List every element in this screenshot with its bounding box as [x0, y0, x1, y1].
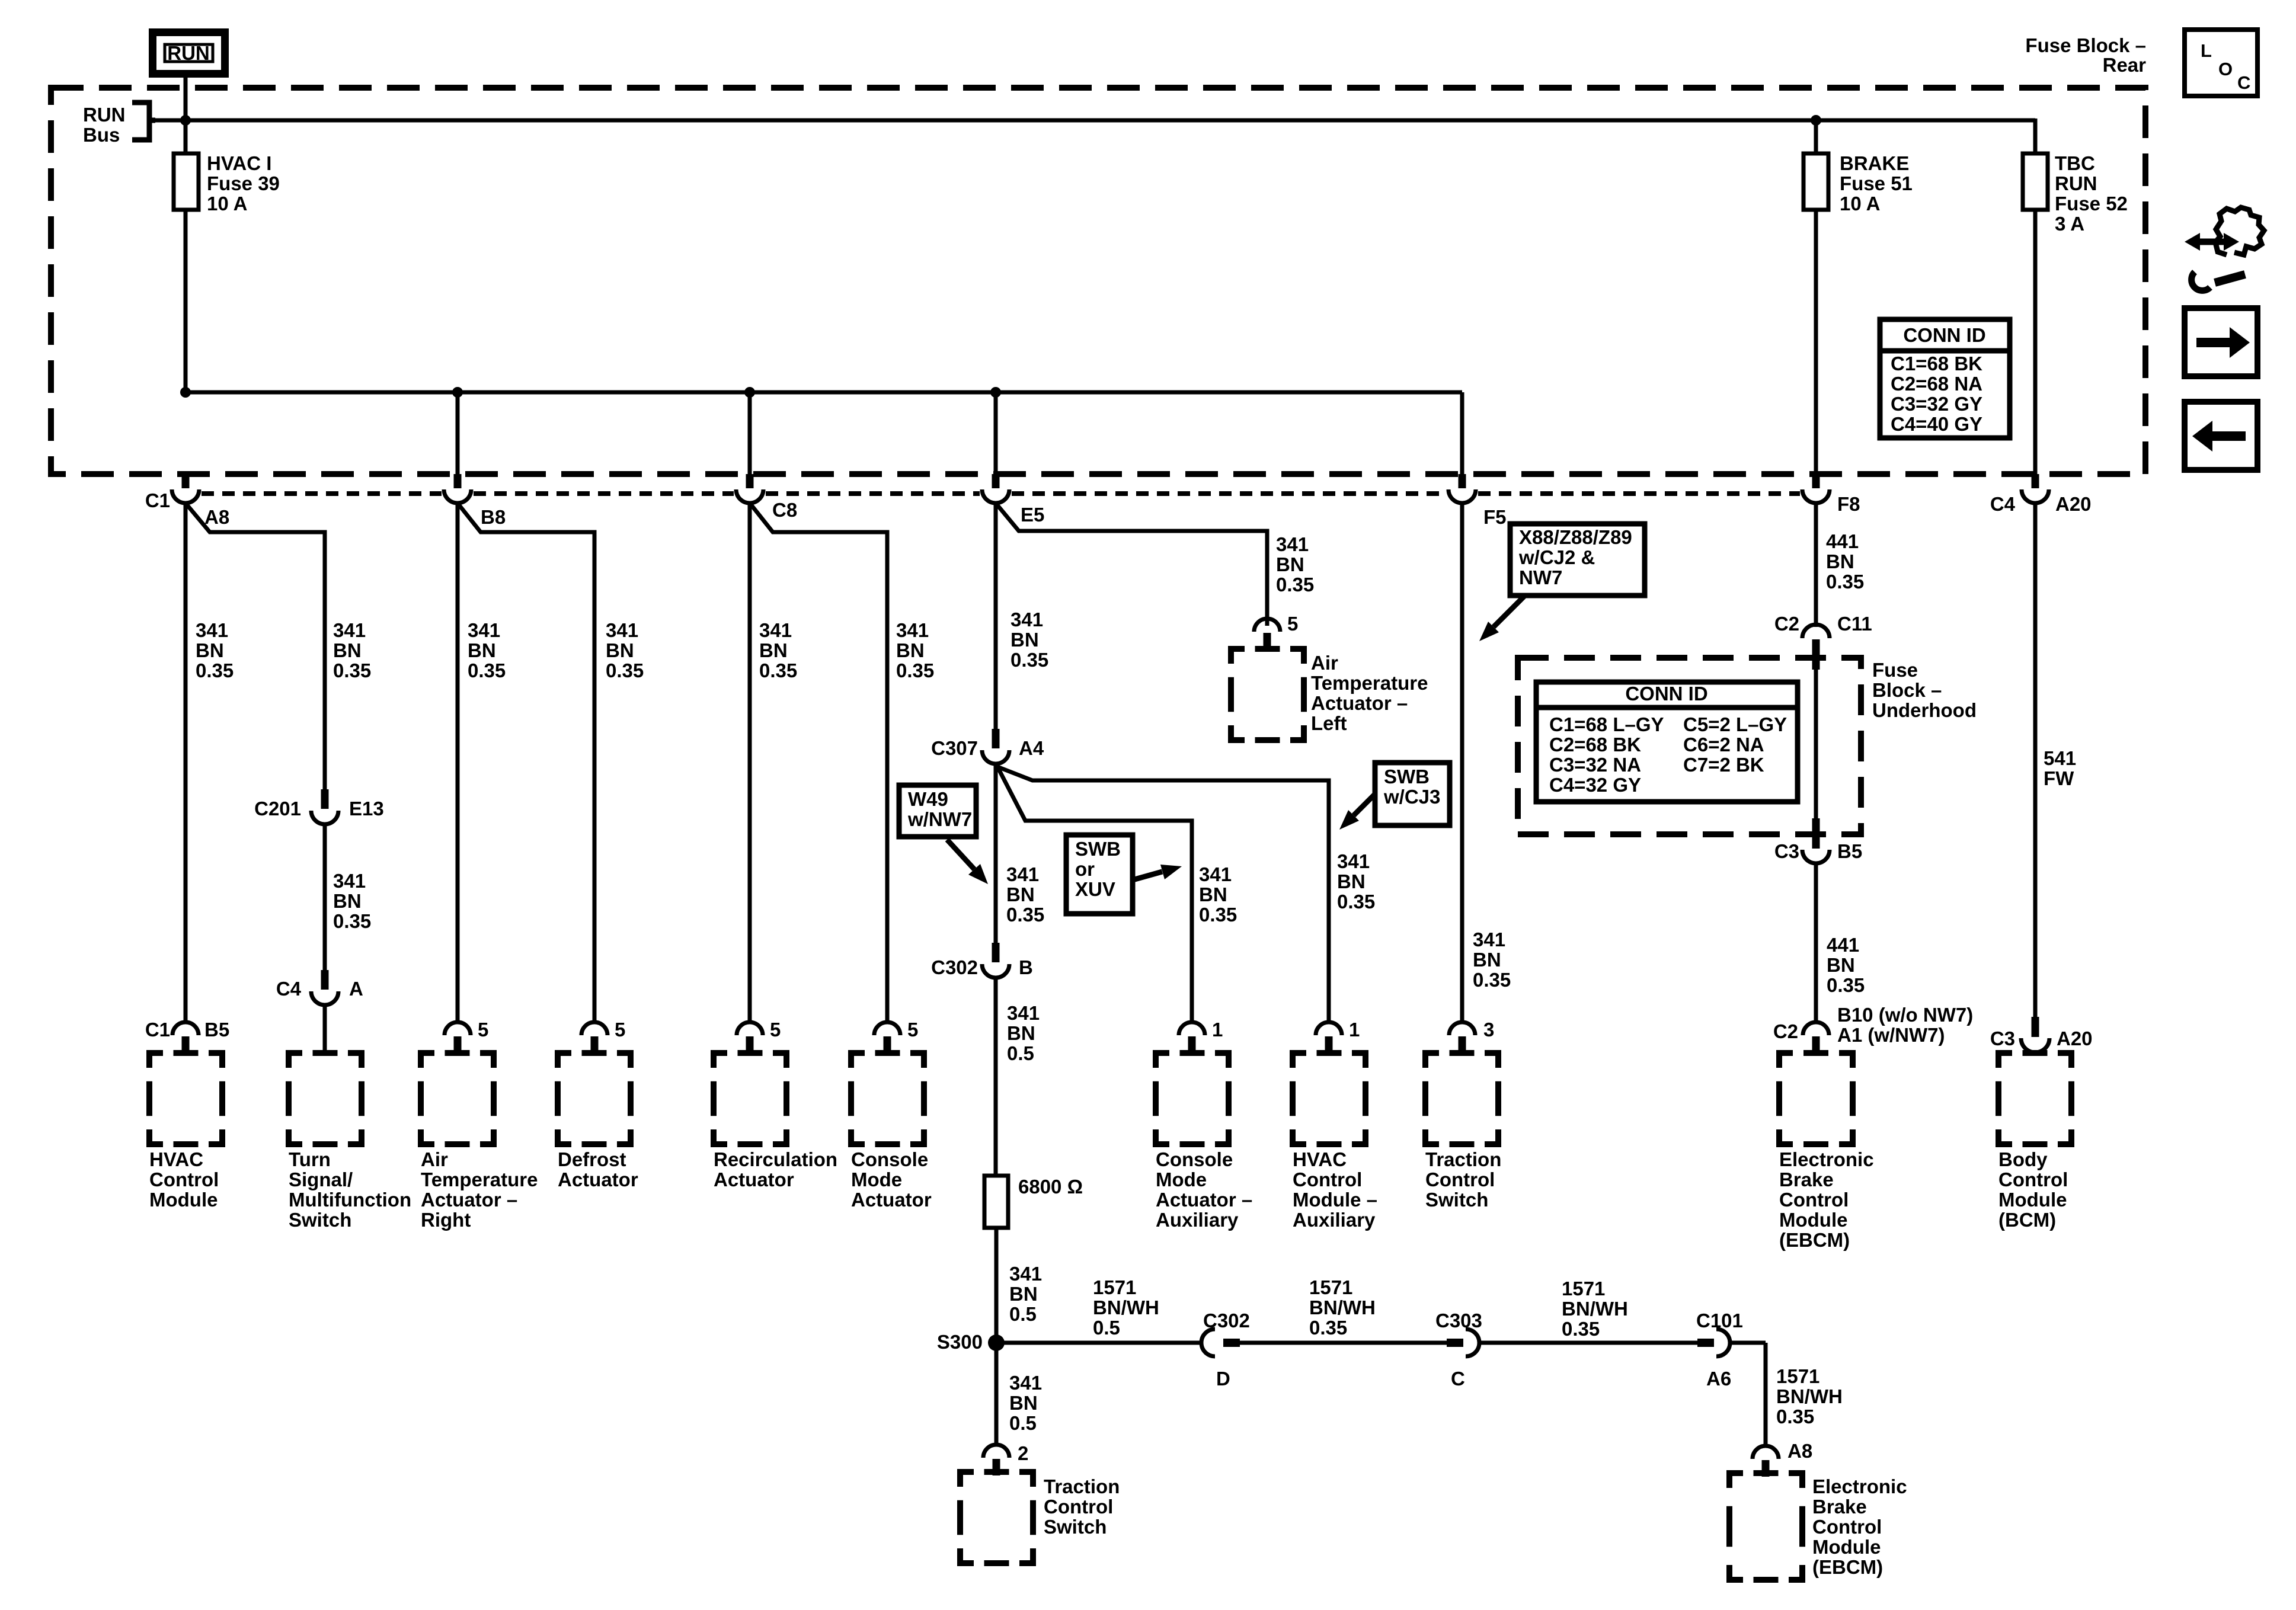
junction inner bus col E5 [990, 387, 1001, 398]
wire inner bus drop E5 [994, 392, 998, 474]
svg-text:Block –: Block – [1872, 679, 1942, 701]
label 341 BN 0.35 col A [196, 619, 234, 681]
icon back arrow box [2185, 402, 2257, 470]
label 341 BN 0.5 above S300 [1009, 1263, 1042, 1325]
label HVAC I Fuse 39 10 A [207, 152, 280, 215]
wire C302 to resistor [994, 978, 998, 1176]
component Recirculation Actuator box [714, 1053, 786, 1144]
component Electronic Brake Control Module box (lower) [1729, 1473, 1802, 1580]
svg-text:Fuse: Fuse [1872, 659, 1918, 681]
svg-text:RUN: RUN [83, 104, 126, 126]
node RUN Bus bracket [132, 103, 155, 140]
svg-text:Recirculation: Recirculation [714, 1148, 837, 1170]
svg-text:Fuse 39: Fuse 39 [207, 172, 280, 194]
wire C307 branch to Console Mode Actuator - Auxiliary [997, 767, 1192, 1022]
svg-text:Fuse Block –: Fuse Block – [2025, 34, 2146, 56]
connector pin 5 Air Temp Actuator Left [1254, 613, 1298, 649]
svg-text:B5: B5 [204, 1019, 229, 1041]
svg-text:341: 341 [896, 619, 929, 641]
svg-text:C302: C302 [931, 956, 978, 978]
svg-text:BN: BN [333, 890, 362, 912]
svg-text:C2: C2 [1773, 1020, 1798, 1042]
label 541 FW [2044, 747, 2076, 789]
connector E5 [982, 474, 1044, 526]
arrow X88 note to F5 wire [1479, 596, 1524, 641]
wire inner distribution bus [186, 392, 1462, 474]
connector C2 at EBCM [1773, 1020, 1829, 1053]
svg-text:RUN: RUN [167, 42, 210, 64]
svg-text:Mode: Mode [851, 1169, 902, 1190]
svg-text:0.35: 0.35 [1199, 904, 1237, 926]
svg-text:C101: C101 [1696, 1310, 1743, 1331]
svg-text:Air: Air [421, 1148, 448, 1170]
label 341 BN 0.35 below C201 [333, 870, 371, 932]
svg-text:1571: 1571 [1776, 1365, 1819, 1387]
svg-text:Electronic: Electronic [1779, 1148, 1874, 1170]
component Electronic Brake Control Module box [1779, 1053, 1853, 1144]
svg-text:BN: BN [1009, 1283, 1038, 1305]
svg-text:XUV: XUV [1075, 878, 1115, 900]
svg-text:C2: C2 [1774, 613, 1799, 635]
svg-text:BN: BN [1276, 553, 1304, 575]
label RUN Bus [83, 104, 126, 146]
svg-text:C11: C11 [1837, 613, 1872, 635]
arrow SWB/CJ3 note to col J wire [1339, 794, 1375, 830]
svg-text:6800 Ω: 6800 Ω [1018, 1176, 1083, 1198]
note box SWB w/CJ3 [1375, 763, 1450, 825]
label HVAC Control Module [149, 1148, 219, 1211]
svg-text:C307: C307 [931, 737, 978, 759]
svg-text:341: 341 [1276, 533, 1309, 555]
svg-text:1571: 1571 [1562, 1278, 1605, 1299]
svg-text:C6=2 NA: C6=2 NA [1683, 734, 1764, 756]
connector C1 pin A8 [145, 474, 229, 528]
svg-text:C3: C3 [1774, 840, 1799, 862]
wire 441 BN 0.35 F8 to C2 [1814, 503, 1818, 627]
connector pin 5 Air Temp Actuator Right [445, 1019, 488, 1053]
svg-text:Module: Module [149, 1189, 218, 1211]
label Turn Signal Multifunction Switch [289, 1148, 411, 1231]
icon LOC reference box [2185, 30, 2257, 96]
wire RUN bus [151, 119, 2035, 123]
note box X88/Z88/Z89 w/CJ2 & NW7 [1510, 524, 1645, 596]
svg-text:Control: Control [149, 1169, 219, 1190]
svg-text:B: B [1019, 956, 1033, 978]
component Traction Control Switch box [1425, 1053, 1498, 1144]
svg-text:10 A: 10 A [207, 193, 247, 215]
svg-text:CONN ID: CONN ID [1625, 683, 1707, 705]
svg-text:C1=68 L–GY: C1=68 L–GY [1549, 713, 1664, 735]
wire branch B8 to Defrost Actuator [458, 503, 594, 1022]
svg-text:A: A [349, 978, 363, 1000]
svg-text:Right: Right [421, 1209, 471, 1231]
svg-text:Control: Control [1779, 1189, 1849, 1211]
svg-text:341: 341 [1009, 1263, 1042, 1285]
svg-text:1571: 1571 [1093, 1276, 1136, 1298]
svg-text:341: 341 [1009, 1372, 1042, 1394]
label 1571 BN/WH 0.35 right [1562, 1278, 1628, 1340]
svg-text:341: 341 [333, 870, 366, 892]
label 341 BN 0.5 below C302 [1007, 1002, 1040, 1064]
svg-text:Actuator –: Actuator – [1311, 692, 1408, 714]
svg-text:C4: C4 [276, 978, 302, 1000]
svg-text:C1: C1 [145, 1019, 170, 1041]
label 341 BN 0.35 col D [606, 619, 644, 681]
svg-text:C3: C3 [1990, 1028, 2015, 1049]
svg-text:BN: BN [1011, 629, 1039, 651]
svg-text:BN/WH: BN/WH [1776, 1385, 1843, 1407]
svg-text:1: 1 [1349, 1019, 1360, 1041]
svg-text:3 A: 3 A [2055, 213, 2084, 235]
resistor 6800 ohm [984, 1176, 1008, 1228]
svg-text:C1=68 BK: C1=68 BK [1891, 353, 1982, 375]
svg-text:Bus: Bus [83, 124, 120, 146]
wire RUN bus corner to TBC fuse [2033, 119, 2038, 155]
wire branch C8 to Console Mode Actuator [750, 503, 887, 1022]
label TBC RUN Fuse 52 3 A [2055, 152, 2128, 235]
svg-text:0.35: 0.35 [1006, 904, 1044, 926]
svg-text:0.35: 0.35 [1827, 974, 1865, 996]
label 341 BN 0.35 col J [1337, 850, 1375, 913]
svg-text:5: 5 [907, 1019, 918, 1041]
arrow SWB/XUV note to col I wire [1133, 865, 1182, 880]
svg-text:CONN ID: CONN ID [1903, 324, 1985, 346]
label HVAC Control Module - Auxiliary [1293, 1148, 1377, 1231]
wire 1571 BN/WH C303 to C101 [1479, 1341, 1697, 1345]
wire branch E5 to Air Temp Actuator Left [996, 503, 1267, 626]
svg-text:F5: F5 [1483, 506, 1507, 528]
note box SWB or XUV [1066, 835, 1133, 914]
svg-text:Switch: Switch [289, 1209, 351, 1231]
wire HVAC I fuse to inner bus [184, 210, 188, 395]
svg-text:Console: Console [1156, 1148, 1233, 1170]
svg-text:Signal/: Signal/ [289, 1169, 353, 1190]
svg-text:0.35: 0.35 [896, 660, 934, 681]
svg-text:A20: A20 [2055, 493, 2092, 515]
svg-text:BN: BN [1199, 884, 1227, 905]
svg-text:Switch: Switch [1425, 1189, 1488, 1211]
svg-text:C3=32 NA: C3=32 NA [1549, 754, 1641, 776]
svg-text:(EBCM): (EBCM) [1812, 1556, 1883, 1578]
wire C307 to C302 [994, 764, 998, 943]
label 341 BN 0.35 col E [759, 619, 797, 681]
svg-text:0.35: 0.35 [606, 660, 644, 681]
label 1571 BN/WH 0.5 [1093, 1276, 1159, 1339]
wire C101 to EBCM A8 [1730, 1343, 1766, 1446]
component Traction Control Switch box (console) [960, 1472, 1033, 1563]
svg-text:441: 441 [1826, 530, 1859, 552]
component Console Mode Actuator - Auxiliary box [1156, 1053, 1229, 1144]
svg-text:Actuator: Actuator [714, 1169, 794, 1190]
svg-text:Temperature: Temperature [1311, 672, 1428, 694]
svg-text:Defrost: Defrost [558, 1148, 626, 1170]
connector pin 5 Console Mode Actuator [874, 1019, 918, 1053]
svg-text:NW7: NW7 [1519, 566, 1562, 588]
wire 341 BN 0.35 col E [748, 503, 752, 1022]
svg-text:5: 5 [615, 1019, 625, 1041]
label Fuse Block - Rear [2025, 34, 2146, 76]
svg-text:C4=32 GY: C4=32 GY [1549, 774, 1641, 796]
svg-text:Electronic: Electronic [1812, 1475, 1907, 1497]
wire branch A8 to C201 [186, 503, 325, 789]
svg-text:RUN: RUN [2055, 172, 2097, 194]
svg-text:341: 341 [196, 619, 228, 641]
svg-text:Brake: Brake [1779, 1169, 1834, 1190]
label 341 BN 0.35 col K [1473, 929, 1511, 991]
svg-text:Mode: Mode [1156, 1169, 1207, 1190]
svg-text:Rear: Rear [2103, 54, 2147, 76]
svg-text:C5=2 L–GY: C5=2 L–GY [1683, 713, 1787, 735]
wire inner bus drop C8 [748, 392, 752, 474]
svg-text:A6: A6 [1706, 1368, 1731, 1390]
svg-text:0.35: 0.35 [1776, 1406, 1814, 1427]
svg-text:Brake: Brake [1812, 1496, 1867, 1518]
connector B8 [444, 474, 506, 528]
svg-text:SWB: SWB [1384, 766, 1430, 788]
svg-text:C201: C201 [254, 798, 301, 820]
svg-text:C4=40 GY: C4=40 GY [1891, 413, 1982, 435]
svg-text:BN: BN [1007, 1022, 1035, 1044]
svg-text:Body: Body [1998, 1148, 2048, 1170]
svg-text:5: 5 [770, 1019, 781, 1041]
label 341 BN 0.35 below C307 [1006, 863, 1044, 926]
label 1571 BN/WH 0.35 drop [1776, 1365, 1843, 1427]
svg-text:0.35: 0.35 [1562, 1318, 1600, 1340]
svg-text:Control: Control [1812, 1516, 1882, 1538]
label Fuse Block - Underhood [1872, 659, 1977, 721]
label BRAKE Fuse 51 10 A [1840, 152, 1913, 215]
wire C307 branch to HVAC Control Module - Auxiliary [997, 767, 1329, 1022]
svg-text:0.5: 0.5 [1009, 1303, 1037, 1325]
svg-text:0.35: 0.35 [196, 660, 234, 681]
connector C303 pin C inline [1435, 1310, 1482, 1390]
label 341 BN 0.35 col B [333, 619, 371, 681]
svg-text:C2=68 NA: C2=68 NA [1891, 373, 1982, 395]
svg-text:B10 (w/o NW7): B10 (w/o NW7) [1837, 1004, 1973, 1026]
svg-text:341: 341 [606, 619, 638, 641]
svg-text:E13: E13 [349, 798, 384, 820]
connector F5 [1448, 474, 1507, 528]
svg-text:BN/WH: BN/WH [1093, 1297, 1159, 1318]
label Recirculation Actuator [714, 1148, 837, 1190]
table CONN ID fuse block underhood [1536, 682, 1798, 802]
svg-text:HVAC I: HVAC I [207, 152, 271, 174]
svg-text:O: O [2218, 59, 2233, 79]
svg-text:0.35: 0.35 [1011, 649, 1048, 671]
wire C4 to Turn Signal switch [323, 1005, 327, 1053]
label Traction Control Switch (console) [1044, 1475, 1120, 1538]
svg-text:BN: BN [333, 639, 362, 661]
svg-text:A4: A4 [1019, 737, 1044, 759]
label Electronic Brake Control Module (EBCM) lower [1812, 1475, 1907, 1578]
connector pin 5 Recirculation Actuator [737, 1019, 781, 1053]
label 441 BN 0.35 lower [1827, 934, 1865, 996]
svg-text:5: 5 [1287, 613, 1298, 635]
svg-text:0.5: 0.5 [1093, 1317, 1120, 1339]
label Console Mode Actuator [851, 1148, 932, 1211]
svg-text:F8: F8 [1837, 493, 1860, 515]
svg-text:Switch: Switch [1044, 1516, 1107, 1538]
svg-text:Console: Console [851, 1148, 928, 1170]
label 441 BN 0.35 upper [1826, 530, 1864, 593]
svg-text:341: 341 [1473, 929, 1505, 950]
component Console Mode Actuator box [851, 1053, 924, 1144]
svg-text:S300: S300 [937, 1331, 983, 1353]
svg-text:C1: C1 [145, 489, 170, 511]
svg-text:BN: BN [896, 639, 925, 661]
component Turn Signal / Multifunction Switch box [289, 1053, 362, 1144]
svg-text:BN: BN [468, 639, 496, 661]
connector C302 pin D inline [1201, 1310, 1250, 1390]
label Body Control Module (BCM) [1998, 1148, 2068, 1231]
connector C307 pin A4 [931, 729, 1044, 764]
wire TBC fuse to connector C4 A20 [2033, 210, 2038, 474]
wire BRAKE fuse to connector F8 [1814, 210, 1818, 474]
svg-text:Control: Control [1425, 1169, 1495, 1190]
svg-text:(BCM): (BCM) [1998, 1209, 2056, 1231]
svg-text:Left: Left [1311, 712, 1347, 734]
svg-text:1: 1 [1212, 1019, 1223, 1041]
junction on RUN bus at BRAKE fuse [1811, 115, 1821, 126]
junction on RUN bus at HVAC I fuse [180, 115, 191, 126]
svg-text:Module: Module [1779, 1209, 1847, 1231]
svg-text:Fuse 52: Fuse 52 [2055, 193, 2128, 215]
component Air Temperature Actuator - Left box [1231, 649, 1304, 740]
label Air Temperature Actuator - Right [421, 1148, 538, 1231]
svg-text:C303: C303 [1435, 1310, 1482, 1331]
svg-text:A8: A8 [1787, 1440, 1812, 1462]
svg-text:Fuse 51: Fuse 51 [1840, 172, 1913, 194]
wire RUN feed into fuse block [184, 78, 188, 155]
connector pin 5 Defrost Actuator [581, 1019, 625, 1053]
icon forward arrow box [2185, 308, 2257, 376]
wire 341 BN 0.35 C201 to C4 [323, 824, 327, 970]
svg-text:BRAKE: BRAKE [1840, 152, 1909, 174]
label Air Temperature Actuator - Left [1311, 652, 1428, 734]
splice S300 [937, 1331, 1005, 1353]
svg-text:341: 341 [1006, 863, 1039, 885]
wire 341 BN 0.35 E5 to C307 [994, 503, 998, 735]
junction inner bus col B8 [452, 387, 463, 398]
svg-text:2: 2 [1018, 1442, 1028, 1464]
fuse F39 HVAC I 10A [174, 153, 199, 210]
connector pin 1 Console Mode Actuator - Auxiliary [1179, 1019, 1223, 1053]
svg-text:D: D [1216, 1368, 1230, 1390]
connector C2 pin C11 [1774, 613, 1872, 670]
svg-text:0.35: 0.35 [1276, 574, 1314, 596]
connector C3 pin A20 at BCM [1990, 1017, 2093, 1052]
svg-text:C302: C302 [1203, 1310, 1250, 1331]
wire resistor to S300 [994, 1228, 999, 1343]
svg-text:1571: 1571 [1309, 1276, 1352, 1298]
svg-text:X88/Z88/Z89: X88/Z88/Z89 [1519, 526, 1632, 548]
label 341 BN 0.35 col F [896, 619, 934, 681]
svg-text:C3=32 GY: C3=32 GY [1891, 393, 1982, 415]
svg-text:HVAC: HVAC [1293, 1148, 1347, 1170]
svg-text:441: 441 [1827, 934, 1859, 956]
svg-text:0.35: 0.35 [468, 660, 506, 681]
connector C8 [736, 474, 797, 521]
label pin B10/A1 options [1837, 1004, 1973, 1046]
svg-text:Actuator –: Actuator – [421, 1189, 517, 1211]
junction inner bus col A [180, 387, 191, 398]
connector F8 [1802, 474, 1860, 515]
connector C1 pin B5 at HVAC Control Module [145, 1019, 229, 1053]
svg-text:SWB: SWB [1075, 838, 1121, 860]
svg-text:Multifunction: Multifunction [289, 1189, 411, 1211]
label 341 BN 0.35 col C [468, 619, 506, 681]
svg-text:Temperature: Temperature [421, 1169, 538, 1190]
svg-text:5: 5 [478, 1019, 488, 1041]
connector pin 2 Traction Control Switch [983, 1442, 1028, 1475]
wire 341 BN 0.35 col C [456, 503, 460, 1022]
svg-text:C: C [1451, 1368, 1465, 1390]
svg-text:BN: BN [1826, 550, 1854, 572]
svg-text:Underhood: Underhood [1872, 699, 1977, 721]
svg-text:Turn: Turn [289, 1148, 331, 1170]
svg-text:w/NW7: w/NW7 [907, 808, 972, 830]
power symbol RUN (ignition feed) [153, 33, 225, 74]
svg-text:0.35: 0.35 [333, 660, 371, 681]
fuse F51 BRAKE 10A [1803, 153, 1828, 210]
svg-text:BN: BN [606, 639, 634, 661]
svg-text:Module: Module [1812, 1536, 1881, 1558]
svg-text:0.5: 0.5 [1007, 1042, 1034, 1064]
svg-text:E5: E5 [1021, 504, 1044, 526]
svg-text:Control: Control [1044, 1496, 1113, 1518]
svg-text:Control: Control [1998, 1169, 2068, 1190]
component Body Control Module box [1998, 1053, 2071, 1144]
label Console Mode Actuator - Auxiliary [1156, 1148, 1252, 1231]
svg-text:Actuator –: Actuator – [1156, 1189, 1252, 1211]
svg-text:BN: BN [196, 639, 224, 661]
svg-text:0.35: 0.35 [1309, 1317, 1347, 1339]
wire 341 BN 0.35 col K [1460, 503, 1464, 1022]
connector row dotted line [202, 491, 1800, 496]
connector pin 1 HVAC Control Module - Auxiliary [1316, 1019, 1360, 1053]
svg-text:341: 341 [1337, 850, 1370, 872]
component HVAC Control Module - Auxiliary box [1293, 1053, 1366, 1144]
svg-text:Air: Air [1311, 652, 1338, 674]
connector C3 pin B5 underhood [1774, 818, 1862, 863]
fuse block - underhood dashed outline [1518, 658, 1861, 834]
component Defrost Actuator box [558, 1053, 631, 1144]
wire 341 BN 0.35 col A [184, 503, 188, 1022]
wire S300 to Traction Control Switch [994, 1343, 999, 1445]
svg-text:3: 3 [1483, 1019, 1494, 1041]
svg-text:0.5: 0.5 [1009, 1412, 1037, 1434]
svg-text:0.35: 0.35 [759, 660, 797, 681]
svg-text:A1 (w/NW7): A1 (w/NW7) [1837, 1024, 1945, 1046]
icon wrench with arrows [2185, 207, 2264, 290]
svg-text:C2=68 BK: C2=68 BK [1549, 734, 1641, 756]
svg-text:C: C [2237, 72, 2250, 93]
svg-text:w/CJ2 &: w/CJ2 & [1518, 546, 1595, 568]
svg-text:BN: BN [1337, 870, 1366, 892]
wire 541 FW TBC to BCM [2033, 503, 2038, 1017]
svg-text:BN: BN [1009, 1392, 1038, 1414]
label Electronic Brake Control Module (EBCM) [1779, 1148, 1874, 1251]
connector pin 3 Traction Control Switch [1449, 1019, 1494, 1053]
svg-text:BN: BN [1473, 949, 1501, 971]
label Traction Control Switch [1425, 1148, 1501, 1211]
fuse F52 TBC RUN 3A [2023, 153, 2048, 210]
connector C4 pin A20 [1990, 474, 2092, 515]
svg-text:0.35: 0.35 [333, 910, 371, 932]
svg-text:C8: C8 [772, 499, 797, 521]
label 341 BN 0.5 below S300 [1009, 1372, 1042, 1434]
label 1571 BN/WH 0.35 mid [1309, 1276, 1376, 1339]
